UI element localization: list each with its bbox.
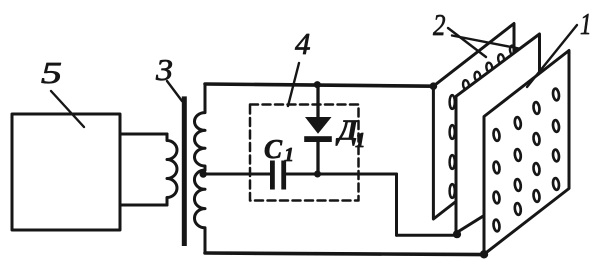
svg-text:1: 1: [284, 144, 294, 166]
wire rectified output right: [397, 234, 458, 237]
svg-text:2: 2: [433, 7, 446, 42]
plate 2a holes column: [450, 95, 455, 198]
node: wire to plate 2b bottom corner: [453, 230, 461, 238]
node: secondary center tap: [200, 170, 207, 177]
leader line for label 5: [51, 91, 84, 127]
wire top (secondary top to plate 2): [205, 84, 433, 86]
leader line for label 1: [527, 25, 577, 87]
diode D1 cathode bar: [304, 136, 332, 142]
svg-text:3: 3: [155, 52, 173, 87]
plate 1 holes: [493, 88, 560, 231]
diode D1 cathode lead: [316, 141, 319, 174]
wire bottom (secondary bottom to plate 1): [205, 253, 484, 255]
box 5 (power source): [12, 114, 120, 230]
plate 2a (rear grid electrode): [433, 24, 514, 220]
capacitor C1 right plate: [281, 161, 286, 190]
dashed block 4: [250, 105, 359, 201]
diode D1 triangle: [305, 117, 332, 134]
node: top wire to plate 2a: [430, 82, 438, 90]
svg-text:1: 1: [580, 6, 592, 41]
leader line for label 4: [288, 63, 299, 106]
svg-text:4: 4: [295, 26, 311, 61]
node: diode cathode junction on mid wire: [314, 171, 321, 178]
node: bottom wire to plate 1: [480, 250, 488, 258]
wire primary top stub: [120, 133, 167, 136]
leader line for label 3: [167, 81, 182, 101]
svg-text:C: C: [264, 134, 283, 164]
svg-text:1: 1: [355, 128, 366, 152]
svg-text:5: 5: [41, 55, 62, 90]
wire rectified output down: [395, 174, 398, 235]
plate 1 (big perforated electrode): [484, 51, 569, 255]
transformer core: [182, 96, 187, 246]
wire capacitor to diode node: [286, 173, 397, 176]
plate 2b (front grid electrode): [456, 34, 540, 233]
transformer secondary winding lower half: [194, 170, 205, 253]
transformer secondary winding upper half: [194, 84, 205, 170]
plate 2a top hole row (peeking above plate 2b): [462, 45, 516, 90]
wire primary bottom stub: [120, 204, 167, 207]
capacitor C1 left plate: [270, 161, 275, 190]
leader lines for label 2: [448, 28, 486, 57]
wire center tap to capacitor: [203, 173, 270, 176]
transformer primary winding: [167, 134, 177, 205]
diode D1 anode lead: [316, 85, 319, 118]
node: diode anode junction on top wire: [314, 81, 321, 88]
